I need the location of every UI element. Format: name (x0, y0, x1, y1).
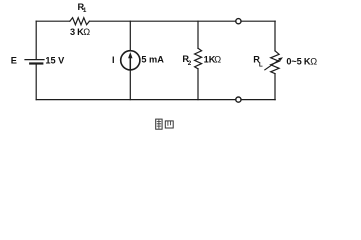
svg-text:E: E (11, 55, 17, 65)
svg-text:3: 3 (70, 27, 75, 37)
svg-text:Ω: Ω (83, 27, 90, 37)
svg-text:I: I (112, 55, 115, 65)
svg-text:2: 2 (188, 60, 192, 67)
svg-text:5 mA: 5 mA (141, 55, 164, 65)
svg-text:Ω: Ω (310, 57, 317, 67)
svg-text:15 V: 15 V (45, 56, 65, 66)
svg-text:0~5 K: 0~5 K (286, 57, 311, 67)
svg-text:L: L (259, 61, 263, 68)
svg-text:1: 1 (83, 7, 87, 14)
svg-text:Ω: Ω (214, 55, 221, 65)
